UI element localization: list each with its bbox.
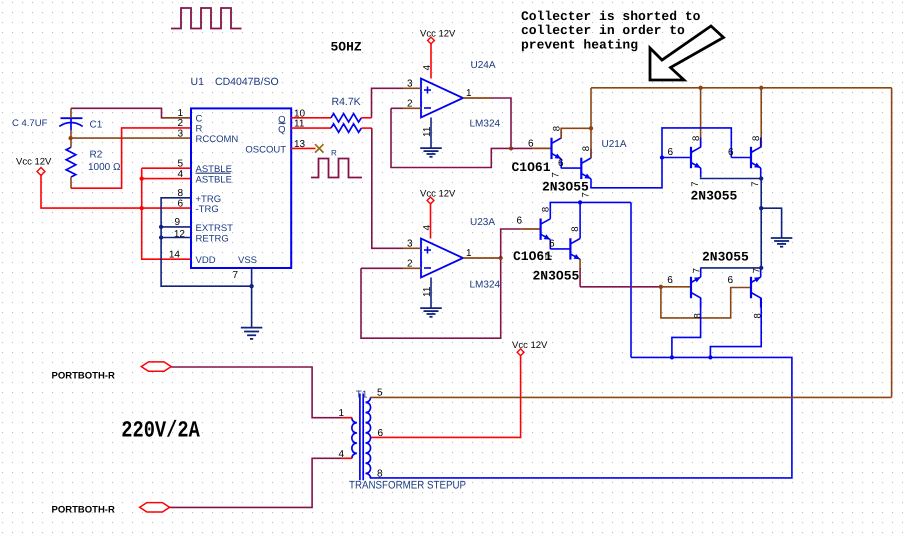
op-amp U24A (LM324) [421,79,463,118]
wire collector node down to output bus [630,202,632,357]
wire U24A pin 3 stub [403,87,421,89]
svg-text:8: 8 [691,136,702,141]
wire Q2 emitter to output bases [591,128,731,188]
wire Vcc net down to U1 pin 14 VDD [142,168,191,259]
junction Q3/Q4 collectors [578,200,582,204]
svg-text:5: 5 [177,159,183,170]
svg-text:6: 6 [558,158,564,169]
wire U1 pin 8 +TRG down to VSS node [161,198,252,286]
junction rail/Q6 [759,86,763,90]
svg-text:14: 14 [169,250,181,261]
junction emitters [759,176,763,180]
svg-text:C1O61: C1O61 [513,249,552,264]
wire U23A feedback loop to -input [361,258,501,338]
port symbol PORTBOTH-R (top) [141,362,171,371]
wire transformer pin 4 stub [342,457,353,459]
wire Q1 emitter to Q2 base [561,167,581,169]
svg-text:Q: Q [278,125,285,136]
svg-text:6: 6 [516,215,522,226]
svg-text:TRANSFORMER STEPUP: TRANSFORMER STEPUP [349,479,466,491]
svg-text:U24A: U24A [471,60,496,71]
svg-text:2N3O55: 2N3O55 [542,180,589,195]
junction pin4/pin5 net [140,176,144,180]
port symbol PORTBOTH-R (bottom) [140,503,170,512]
IC U1 CD4047B/SO body [191,108,291,268]
transformer secondary winding [366,397,371,478]
wire emitter bus down [760,178,762,268]
no-connect X on pin 13 [315,144,324,152]
junction emitters lower [759,266,763,270]
wire U1 pin 5 ASTBLE [142,167,191,169]
capacitor C1 (4.7uF, polarized) [61,117,83,119]
svg-text:Vcc 12V: Vcc 12V [420,189,456,200]
svg-text:R: R [331,148,337,157]
junction VSS node [249,284,253,288]
svg-text:4: 4 [422,225,433,231]
svg-text:7: 7 [233,270,239,281]
ground (U1 VSS) [241,327,263,329]
wire output node to Q1 base [511,147,532,149]
wire port to transformer pin 4 [170,458,342,507]
svg-text:12: 12 [174,229,186,240]
transistor Q2 2N3055 (upper driver) [581,148,591,188]
svg-text:6: 6 [528,138,534,149]
svg-text:T1: T1 [356,390,368,401]
junction Q1/Q2 collectors [589,126,593,130]
wire R2 bottom lead [70,177,72,188]
svg-text:6: 6 [378,428,384,439]
transistor Q7 2N3055 (lower output) [691,268,701,308]
wire U1 pin 12 RETRG [161,237,191,239]
svg-text:7: 7 [690,181,701,186]
svg-text:Vcc 12V: Vcc 12V [16,157,52,168]
wire cap C1 top lead [70,108,72,118]
svg-text:C1: C1 [90,120,103,131]
transistor Q8 2N3055 (lower output) [751,268,761,308]
ground (U23A) [420,307,442,309]
svg-text:Vcc 12V: Vcc 12V [420,29,456,40]
resistor R4.7K (upper) [331,114,361,122]
transistor Q5 2N3055 (upper output) [691,138,701,178]
wire output bus to transformer pin 8 [370,357,792,478]
svg-text:2N3O55: 2N3O55 [691,189,738,204]
transistor Q4 2N3055 (lower driver) [570,229,580,269]
svg-text:RCCOMN: RCCOMN [196,134,239,145]
wire U1 pin 7 VSS to ground [251,268,253,328]
wire rail down to Q6 collector [760,88,762,148]
svg-text:U1: U1 [191,76,205,88]
resistor R2 1000 ohm [66,147,76,177]
ground (U24A) [420,147,442,149]
wire U24A pin 1 output stub [463,97,492,99]
wire Vcc to U23A pin 4 [430,203,432,238]
wire base stub Q7 [661,286,691,288]
svg-text:PORTBOTH-R: PORTBOTH-R [52,505,115,516]
wire Q8 collector to output bus [710,298,761,358]
wire R2 top lead [70,138,72,147]
wire U24A pin 2 stub [403,107,421,109]
transistor Q1 C1061 (upper driver) [552,128,562,168]
svg-text:R2: R2 [90,150,103,161]
junction U24A output node [509,146,513,150]
junction U23A output node [499,256,503,260]
transistor Q6 2N3055 (upper output) [751,138,761,178]
svg-text:U21A: U21A [602,139,627,150]
wire Q7/Q8 emitters join [701,267,762,269]
svg-text:EXTRST: EXTRST [196,223,234,234]
wire node down to Q4 collector [579,202,581,229]
wire output node up to Q3 base [501,229,521,258]
wire rail right edge down [891,88,893,398]
wire pin1 stub brown [163,117,191,119]
junction cap/R2/pin3 [68,136,72,140]
svg-text:6: 6 [728,147,734,158]
wire Q4 emitter down [579,268,581,286]
svg-text:C 4.7UF: C 4.7UF [12,118,48,129]
junction emitter/ground [759,206,763,210]
svg-text:R4.7K: R4.7K [332,96,361,108]
svg-text:8: 8 [751,136,762,141]
wire Vcc to transformer pin 6 center tap [370,355,520,437]
transformer primary winding [352,418,357,459]
wire feedback to U24A -input [391,107,403,109]
waveform symbol (square-wave, 3 pulses) [171,8,242,29]
svg-text:220V/2A: 220V/2A [121,417,200,443]
wire Q3 base stub [521,228,541,230]
transformer T1 core [359,394,361,481]
wire U23A pin 11 to ground [430,278,432,309]
wire Vcc to U24A pin 4 [430,43,432,78]
wire U1 pin 4 ASTBLE [142,178,191,180]
svg-text:U23A: U23A [470,217,495,228]
svg-text:LM324: LM324 [470,280,501,291]
wire cap C1 bottom lead [70,130,72,138]
svg-text:5OHZ: 5OHZ [331,39,362,54]
svg-text:7: 7 [750,181,761,186]
svg-text:6: 6 [177,198,183,209]
wire U24A output down to node [492,98,512,148]
svg-text:1000 Ω: 1000 Ω [88,162,121,173]
wire base net to Q8 [661,287,751,318]
svg-text:4: 4 [177,169,183,180]
wire Q7 collector to output bus [672,298,701,358]
junction lower base net [659,285,663,289]
wire U1 pin 9 EXTRST [161,226,191,228]
power symbol Vcc (U23A) [427,197,434,204]
svg-text:OSCOUT: OSCOUT [245,145,286,156]
junction Q7 collector/output bus [670,355,674,359]
wire rail tap down to Q2 collector [590,88,592,158]
svg-text:-TRG: -TRG [196,204,219,215]
svg-text:CD4047B/SO: CD4047B/SO [215,76,279,88]
svg-text:2N3O55: 2N3O55 [533,268,580,283]
wire Q3 emitter to Q4 base [550,248,570,250]
wire R net (R2 bottom to U1 pin 2) [71,128,191,188]
wire resistor node up to U24A +input [372,88,404,118]
svg-text:6: 6 [667,275,673,286]
svg-text:VDD: VDD [196,255,216,266]
junction Q8 collector/output bus [708,355,712,359]
junction rail/Q5 [698,86,702,90]
wire Q4 emitter to base node [580,286,661,288]
svg-text:8: 8 [692,313,703,318]
wire RCCOMN net (cap/R2 to U1 pin 3) [71,137,191,139]
wire resistor to node [361,117,371,119]
svg-text:6: 6 [727,275,733,286]
wire resistor to node [361,127,371,129]
svg-text:LM324: LM324 [470,119,501,130]
wire Q4 emitter stub [579,259,581,268]
wire U1 pin 13 OSCOUT stub [291,147,316,149]
wire Q1 base stub [532,147,552,149]
svg-text:VSS: VSS [238,255,257,266]
wire Q3 collector node [550,202,631,209]
svg-text:7: 7 [551,172,562,177]
wire rail down to Q5 collector [700,88,702,148]
svg-text:collecter in order to: collecter in order to [521,23,685,38]
wire base stub Q5 [662,157,691,159]
wire U23A pin 1 output stub [463,257,501,259]
wire Q5 emitter to Q6 emitter [701,177,762,180]
svg-text:3: 3 [177,128,183,139]
wire U24A pin 11 to ground [430,118,432,149]
wire U24A feedback loop to -input [391,108,511,167]
svg-text:Collecter is shorted to: Collecter is shorted to [521,9,701,24]
svg-text:PORTBOTH-R: PORTBOTH-R [52,370,115,381]
wire C net (cap top to U1 pin 1) [71,108,191,118]
svg-text:Vcc 12V: Vcc 12V [512,340,548,351]
svg-text:6: 6 [667,147,673,158]
wire feedback to U23A -input [361,267,403,269]
wire U23A pin 2 stub [403,267,421,269]
wire Q1 collector to rail tap [561,128,591,138]
wire transformer pin 5 to rail [370,396,891,398]
svg-text:ASTBLE: ASTBLE [196,174,232,185]
junction Q5 base net [660,155,664,159]
power symbol Vcc (bottom) [517,349,524,356]
wire resistor node down to U23A +input [372,128,403,248]
wire collector rail (top) [591,87,892,89]
block arrow pointing to transistors [650,26,724,80]
wire to ground [761,208,781,238]
wire base stub Q6 [731,157,751,159]
wire U1 pin 11 Q to resistor [291,127,331,129]
wire U23A pin 3 stub [403,247,421,249]
wire port to transformer pin 1 [171,367,341,418]
svg-text:RETRG: RETRG [196,233,229,244]
svg-text:6: 6 [549,239,555,250]
power symbol Vcc (left, red diamond) [37,168,45,176]
svg-text:9: 9 [174,217,180,228]
svg-text:2N3O55: 2N3O55 [702,249,749,264]
transistor Q3 C1061 (lower driver) [541,209,551,249]
svg-text:8: 8 [377,468,383,479]
junction pin 9 net [159,225,163,229]
junction Vcc/-TRG net [140,206,144,210]
svg-text:C1O61: C1O61 [512,160,551,175]
wire Vcc to U1 pin 6 -TRG [41,174,191,208]
power symbol Vcc (U24A) [428,37,435,44]
svg-text:prevent heating: prevent heating [521,38,638,53]
wire U1 pin 10 Q to resistor [291,117,331,119]
junction pin 12 net [159,235,163,239]
wire transformer pin 1 stub [342,417,353,419]
resistor R4.7K (lower) [331,124,361,132]
op-amp U23A (LM324) [421,239,463,278]
ground (emitter bus) [771,237,793,239]
waveform symbol (square-wave, 2 pulses) [311,159,362,178]
